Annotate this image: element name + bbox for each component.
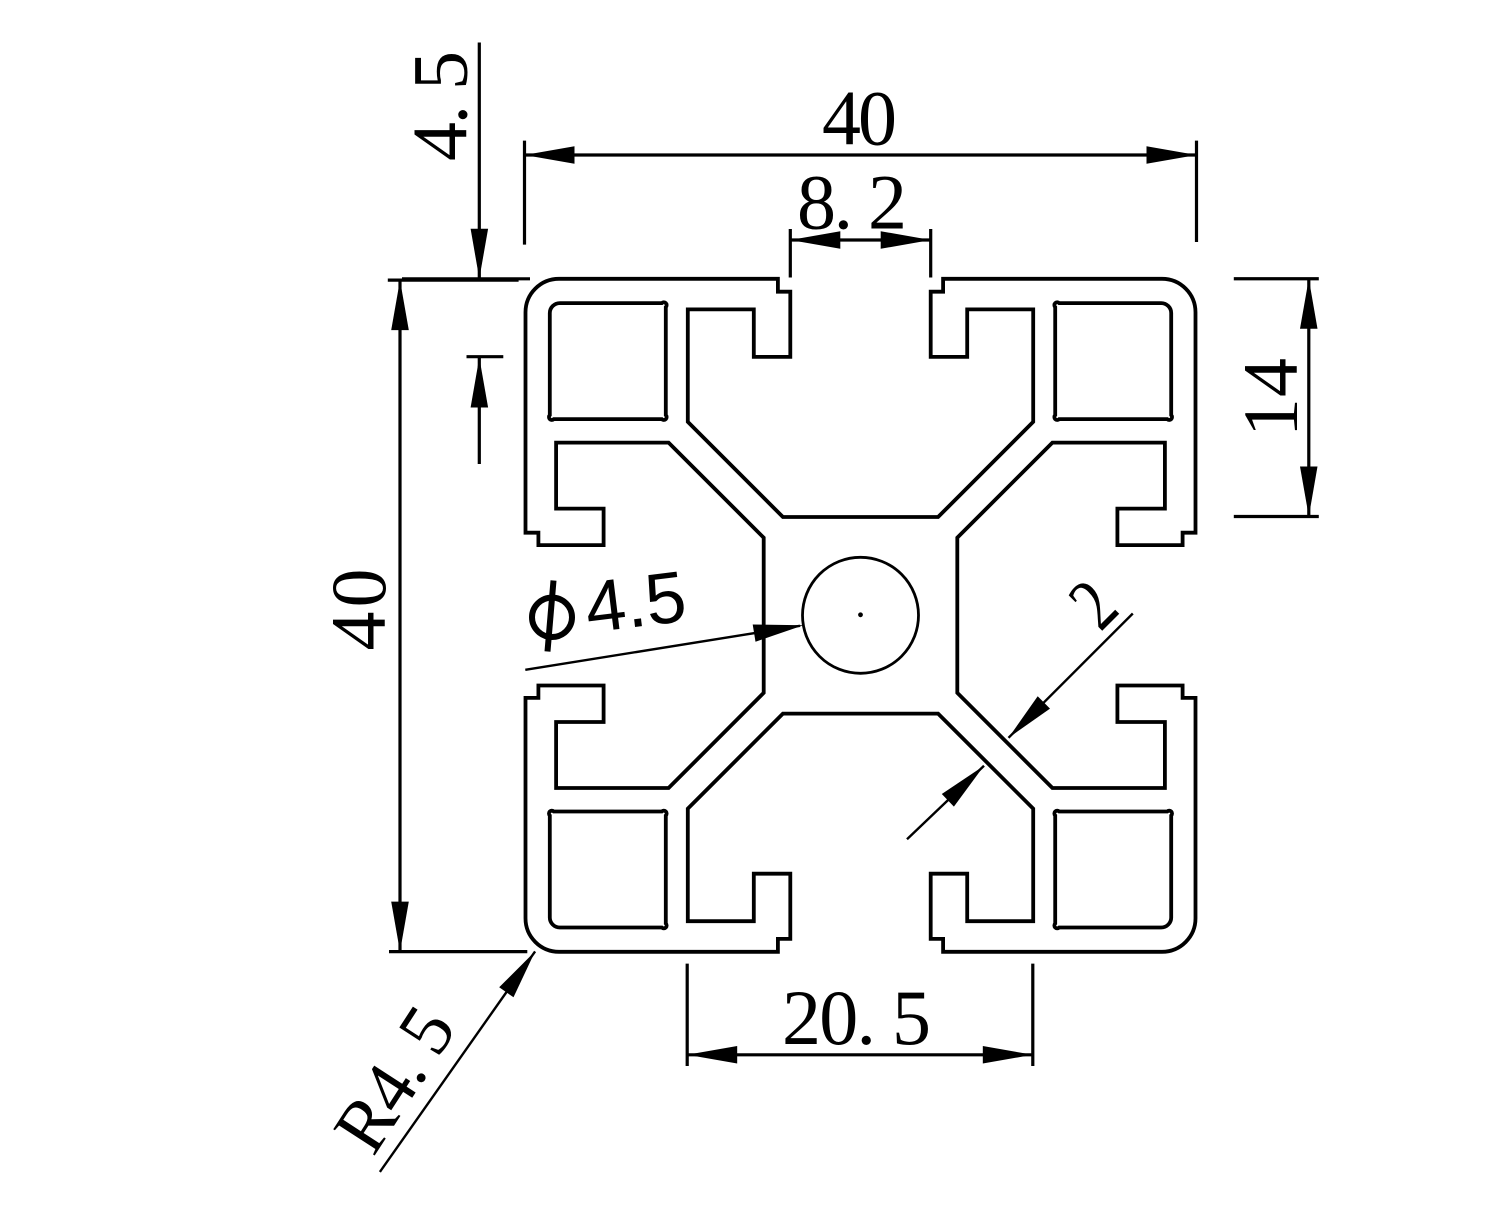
dim 8.2 left arrow <box>790 231 840 249</box>
dim 8.2: right extension line <box>929 229 932 278</box>
corner square hole bottom-left <box>549 811 667 929</box>
dim 20.5: dimension line <box>687 1053 1033 1056</box>
dim 40 left: top extension line <box>388 279 519 282</box>
svg-text:8. 2: 8. 2 <box>797 159 907 246</box>
dim 14: dimension line <box>1307 279 1310 517</box>
aluminum extrusion profile outline with four T-slots <box>526 279 1196 952</box>
svg-text:4.5: 4.5 <box>581 556 691 649</box>
leader 2 lower arrow <box>942 766 984 807</box>
dim 40 top left arrow <box>525 146 575 164</box>
dim 4.5 down arrow <box>471 229 489 279</box>
dim 14: top extension line <box>1234 277 1319 280</box>
leader 2 upper line <box>1009 614 1133 738</box>
dim 40 left: bottom extension line <box>389 950 527 953</box>
dim 14: bottom extension line <box>1234 515 1319 518</box>
svg-text:4. 5: 4. 5 <box>397 51 484 161</box>
svg-text:40: 40 <box>822 75 897 162</box>
dim 40 left: dimension line <box>398 280 401 952</box>
dim 20.5 left arrow <box>687 1046 737 1064</box>
dim 8.2 right arrow <box>881 231 931 249</box>
dim 4.5 up arrow <box>471 358 489 408</box>
dim 40 top: dimension line <box>525 153 1197 156</box>
dim 40 top right arrow <box>1147 146 1197 164</box>
dim 20.5: left extension line <box>686 964 689 1066</box>
center hole circle <box>803 557 919 673</box>
center hole dot <box>858 612 863 617</box>
leader 2 upper arrow <box>1009 696 1051 738</box>
dim 14 top arrow <box>1300 279 1318 329</box>
dim 8.2: left extension line <box>789 229 792 278</box>
dim 40 left bottom arrow <box>391 902 409 952</box>
leader phi4.5 line <box>525 626 800 670</box>
dim 4.5: surface extension line <box>402 277 530 280</box>
dim 40 top: left extension line <box>523 141 526 245</box>
leader phi4.5 arrow <box>753 625 804 642</box>
dim 4.5: upper dimension line <box>478 43 481 279</box>
leader R4.5 arrow <box>499 951 535 997</box>
dim 20.5 right arrow <box>983 1046 1033 1064</box>
corner square hole top-right <box>1054 302 1172 420</box>
dim text phi4.5: phi symbol <box>532 581 572 652</box>
dim 8.2: dimension line <box>790 238 930 241</box>
leader 2 lower line <box>907 766 984 840</box>
dim 4.5: lip extension tick <box>467 355 504 358</box>
dim 4.5: lower dimension line <box>478 358 481 465</box>
leader R4.5 line <box>380 951 535 1172</box>
dim 20.5: right extension line <box>1031 964 1034 1066</box>
corner square hole bottom-right <box>1054 811 1172 929</box>
dim 40 left top arrow <box>391 280 409 330</box>
corner square hole top-left <box>549 302 667 420</box>
svg-text:20. 5: 20. 5 <box>782 974 931 1061</box>
dim 14 bottom arrow <box>1300 467 1318 517</box>
dim 40 top: right extension line <box>1195 141 1198 242</box>
svg-text:14: 14 <box>1227 358 1314 437</box>
